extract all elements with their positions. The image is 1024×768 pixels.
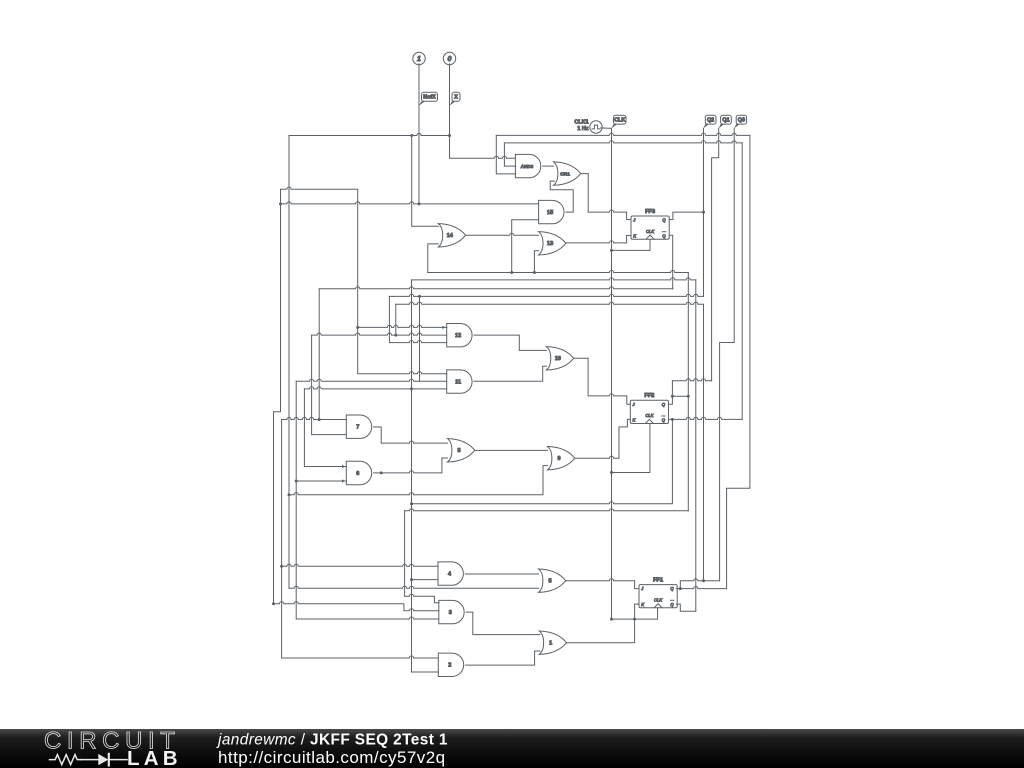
- digital source 0: [443, 52, 455, 64]
- wire top bus 1 (Q0 net): [496, 133, 750, 135]
- svg-text:3: 3: [449, 610, 452, 616]
- wire gate 2 output to gate 1 input 2: [466, 651, 540, 665]
- svg-text:NotX: NotX: [423, 95, 436, 101]
- junction X to gate14 branch: [410, 134, 413, 137]
- flag X: [452, 92, 460, 101]
- wire FF2 Q branch line: [672, 379, 711, 381]
- junction Q1bar at 11.in3 line: [410, 387, 413, 390]
- wire L1 right drop: [687, 273, 689, 511]
- junction FF1 K crossing: [633, 618, 636, 621]
- svg-text:Q1: Q1: [722, 118, 729, 124]
- logo diode arrow: [81, 759, 98, 761]
- flag Q0: [736, 115, 746, 124]
- wire gate 12 output to gate 10 input 1: [474, 335, 546, 350]
- svg-text:K: K: [641, 602, 644, 607]
- wire gate 7 output to gate 8 input 1: [374, 427, 448, 443]
- wire gate 3 output to gate 1 input 1: [466, 612, 540, 635]
- and gate 2: [438, 653, 463, 676]
- and gate 12: [447, 324, 472, 347]
- wire gate 8 output to gate 9 input 1: [475, 449, 548, 451]
- or gate 8: [448, 439, 475, 462]
- wire gate 11 output to gate 10 input 2: [474, 366, 546, 381]
- wire 304 vertical to gate 6 input 1: [304, 389, 346, 467]
- flag Q1: [721, 115, 732, 124]
- wire FF2 Q up branch: [670, 381, 673, 404]
- wire CLK vertical: [611, 128, 613, 619]
- wire FF2 Qbar line to bus2 drop: [670, 417, 743, 419]
- svg-text:Q: Q: [662, 218, 666, 223]
- junction NotX at 15 line: [418, 202, 421, 205]
- wire bus1 left drop to AND6 input 3: [496, 135, 515, 174]
- wire gate 12 input 2 line: [312, 333, 447, 335]
- wire bus2 left drop to AND6 input 2: [504, 143, 515, 166]
- wire FF2 K from gate 9 output: [575, 419, 631, 458]
- wire X left vertical: [288, 136, 290, 589]
- and gate AND6: [515, 154, 540, 177]
- wire Q1 line to bottom: [405, 509, 689, 511]
- svg-text:CLK: CLK: [645, 413, 653, 418]
- junction CLK at FF1: [610, 618, 613, 621]
- digital source 1: [413, 52, 425, 64]
- or gate 14: [438, 224, 465, 247]
- svg-text:K: K: [633, 233, 636, 238]
- wire Q0 flag vertical with jog: [720, 128, 735, 581]
- flag Q2: [705, 115, 716, 124]
- jk flip-flop FF2: [630, 400, 668, 423]
- svg-text:K: K: [633, 418, 636, 423]
- wire Q2 drop to 11.in2 line: [419, 296, 421, 381]
- wire Q2 drop to gate 12 input 3: [389, 296, 446, 342]
- wire NotX left vertical with jog: [274, 189, 281, 604]
- svg-text:5: 5: [548, 579, 551, 585]
- svg-text:http://circuitlab.com/cy57v2q: http://circuitlab.com/cy57v2q: [218, 748, 446, 767]
- junction Q1 tie at FF2 Q: [687, 395, 690, 398]
- svg-text:Q0: Q0: [738, 118, 745, 124]
- wire L1 left riser to gate 14 input 2: [428, 244, 439, 273]
- wire FF2 Qbar horizontal to 503 line: [412, 419, 673, 503]
- svg-text:6: 6: [356, 471, 359, 477]
- wire X to gate 9 input 2: [289, 466, 548, 495]
- junction X at top bus: [448, 134, 451, 137]
- wire L5 right drop to FF1 Q line: [703, 304, 705, 581]
- junction L1 at 15.in2 vertical: [510, 271, 513, 274]
- svg-text:J: J: [640, 586, 644, 591]
- or gate 5: [539, 569, 566, 592]
- svg-text:2: 2: [448, 663, 451, 669]
- svg-text:X: X: [454, 95, 458, 101]
- svg-text:Q: Q: [670, 586, 674, 591]
- svg-text:1 Hz: 1 Hz: [577, 126, 588, 132]
- flag NotX: [422, 92, 438, 101]
- arrow at gate 12 input 1: [442, 326, 445, 329]
- junction Q2bar at 7.in1 line: [318, 418, 321, 421]
- and gate 15: [539, 200, 564, 223]
- svg-text:Q: Q: [662, 418, 666, 423]
- svg-text:CLK: CLK: [646, 229, 654, 234]
- or gate 10: [546, 347, 573, 370]
- junction Q0 at FF1 Q line: [702, 579, 705, 582]
- jk flip-flop FF1: [639, 585, 677, 608]
- wire top bus 2 (Q1bar net): [504, 141, 742, 143]
- wire gate 13 output to FF3 K: [566, 236, 631, 243]
- svg-text:FF3: FF3: [645, 209, 655, 215]
- junction CLK at FF2: [610, 471, 613, 474]
- wire Q2bar drop to 7.in1 line: [318, 289, 320, 420]
- svg-text:1: 1: [549, 641, 552, 647]
- wire FF1 Q stub: [677, 588, 681, 590]
- arrow at gate 6 input 1: [342, 465, 345, 468]
- junction Q1bar at 4.in2 line: [410, 578, 413, 581]
- junction Q2 drop at L4: [418, 295, 421, 298]
- svg-text:Q2: Q2: [707, 118, 714, 124]
- svg-text:jandrewmc / JKFF SEQ 2Test 1: jandrewmc / JKFF SEQ 2Test 1: [216, 732, 448, 749]
- wire OR1 output to FF3 J: [581, 174, 631, 220]
- svg-text:15: 15: [547, 210, 553, 216]
- junction Q0 at 12.in2 line: [394, 334, 397, 337]
- wire Q1bar to gate 4 input 2: [412, 579, 439, 581]
- wire gate 7 input 1 line: [282, 417, 347, 419]
- svg-text:4: 4: [448, 571, 452, 577]
- svg-text:CLK: CLK: [654, 597, 662, 602]
- wire Q2 line L4: [389, 294, 703, 296]
- svg-text:FF1: FF1: [653, 577, 663, 583]
- junction CLK at FF3: [610, 249, 613, 252]
- wire 7.in1 line left drop: [281, 420, 283, 659]
- wire X to gate 5 input 2: [289, 586, 539, 588]
- logo resistor squiggle: [50, 755, 82, 765]
- junction at 6.in2 line: [295, 480, 298, 483]
- wire gate 1 output to FF1 K: [567, 604, 640, 643]
- svg-text:AND6: AND6: [521, 164, 534, 169]
- svg-text:Q: Q: [662, 233, 666, 238]
- or gate OR1: [554, 162, 581, 185]
- wire to gate 6 input 2: [296, 480, 346, 482]
- svg-text:Q: Q: [662, 402, 666, 407]
- wire Q1bar left vertical: [412, 280, 439, 672]
- wire NotX from source 1 down: [418, 64, 420, 204]
- wire FF3 Q to Q2 vertical: [669, 212, 703, 219]
- wire gate 11 input 3 line: [304, 387, 446, 389]
- wire branch to gate 15 input 2: [512, 220, 539, 273]
- junction FF2 Qbar: [671, 418, 674, 421]
- junction Q1bar at 503 line: [410, 502, 413, 505]
- svg-text:J: J: [632, 402, 636, 407]
- junction NotX left vertical: [279, 202, 282, 205]
- wire X top bus: [289, 133, 450, 135]
- svg-text:Q: Q: [670, 602, 674, 607]
- wire 12.in2 line drop to gate 7 input 2: [312, 335, 347, 435]
- wire Q2bar to gate 2 input 1: [282, 656, 439, 658]
- wire Q2 flag vertical: [703, 128, 705, 296]
- svg-text:7: 7: [356, 425, 359, 431]
- wire FF3 CLK: [612, 239, 651, 250]
- wire Q0 line L5: [396, 302, 704, 304]
- junction X at 9.in2 line: [288, 493, 291, 496]
- wire gate 15 output to OR1 input 2: [550, 181, 573, 212]
- wire FF3 Qbar down to Q2bar line: [669, 235, 673, 289]
- clock source CLK1: [590, 121, 602, 133]
- svg-text:8: 8: [457, 448, 460, 454]
- junction NotX at 12.in1 line: [356, 326, 359, 329]
- wire 296 vertical: [296, 381, 439, 619]
- and gate 7: [346, 415, 371, 438]
- wire FF1 Q up branch: [680, 579, 719, 589]
- wire FF1 Q right branch: [680, 586, 726, 588]
- svg-text:J: J: [632, 218, 636, 223]
- svg-text:1: 1: [417, 56, 421, 63]
- wire bus2 right drop to FF2 Qbar line: [741, 143, 743, 420]
- or gate 1: [539, 631, 566, 654]
- svg-text:CLK: CLK: [614, 118, 625, 124]
- wire X branch to gate 14 input 1: [412, 136, 439, 227]
- wire Q1 bottom drop to gate 3 input 1: [405, 511, 439, 603]
- wire gate 10 output to FF2 J: [574, 358, 631, 404]
- wire FF2 CLK: [612, 424, 650, 473]
- svg-text:OR1: OR1: [560, 171, 570, 177]
- svg-text:LAB: LAB: [127, 747, 182, 768]
- svg-text:9: 9: [557, 456, 560, 462]
- junction NotX at 3.in1 line: [272, 602, 275, 605]
- wire gate 11 input 2 line: [296, 379, 447, 381]
- wire Q2bar line L3: [319, 287, 673, 289]
- wire Q1 tie segment: [672, 395, 688, 397]
- wire FF1 Qbar branch: [677, 604, 696, 611]
- and gate 4: [438, 562, 463, 585]
- wire Q1bar bus L2: [412, 278, 696, 280]
- wire gate 4 output to gate 5 input 1: [465, 573, 538, 575]
- svg-text:CLK1: CLK1: [574, 119, 588, 125]
- wire X net from source 0 down to AND6 input 1: [450, 64, 516, 159]
- and gate 3: [439, 600, 464, 623]
- wire Q1 flag vertical with jog: [712, 128, 719, 380]
- wire branch to gate 13 input 2: [534, 251, 538, 273]
- arrow at gate 6 input 2: [342, 479, 345, 482]
- and gate 11: [447, 370, 472, 393]
- wire gate 6 output to gate 8 input 2: [374, 458, 448, 473]
- svg-text:FF2: FF2: [644, 393, 654, 399]
- junction FF3 Q at Q2 vertical: [702, 211, 705, 214]
- jk flip-flop FF3: [631, 216, 669, 239]
- wire AND6 output to OR1 input 1: [543, 165, 554, 167]
- wire bus1 right drop with jog to FF1 Q branch: [727, 135, 750, 588]
- svg-text:10: 10: [555, 356, 561, 362]
- or gate 13: [539, 232, 566, 255]
- wire Q1 bus L1: [428, 270, 689, 272]
- wire NotX to gate 3 input 1: [274, 602, 439, 611]
- junction Q2bar at 4.in1 line: [280, 565, 283, 568]
- svg-text:12: 12: [455, 333, 461, 339]
- svg-text:0: 0: [448, 56, 452, 63]
- svg-text:14: 14: [447, 233, 454, 239]
- or gate 9: [548, 447, 575, 470]
- svg-text:11: 11: [455, 379, 461, 385]
- wire FF1 CLK: [612, 608, 658, 619]
- and gate 6: [346, 461, 371, 484]
- junction FF2 Q at tie: [671, 395, 674, 398]
- wire CLK from source to flag point: [601, 127, 612, 129]
- junction gate 6 output branch: [380, 471, 383, 474]
- wire NotX line to gate 15 input 1: [281, 202, 539, 204]
- wire gate 14 output to gate 13 input 1: [466, 233, 539, 235]
- flag CLK: [614, 115, 627, 124]
- junction FF1 Q: [679, 587, 682, 590]
- wire L5 left drop to 12.in2 line: [395, 304, 397, 335]
- wire Q1bar right drop to FF1 Qbar line: [695, 280, 697, 611]
- wire gate 5 output to FF1 J: [566, 579, 639, 589]
- wire Q2bar to gate 4 input 1: [282, 564, 438, 566]
- svg-text:13: 13: [547, 241, 553, 247]
- wire NotX upper branch: [281, 187, 447, 374]
- wire NotX to gate 12 input 1: [358, 325, 447, 327]
- junction L1 at 13.in2 vertical: [533, 271, 536, 274]
